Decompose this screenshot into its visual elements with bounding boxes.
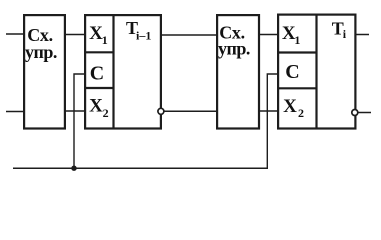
svg-text:X: X — [283, 96, 297, 117]
svg-text:i–1: i–1 — [136, 28, 151, 42]
wire inverse output stub of Ti — [357, 112, 371, 114]
svg-text:X: X — [89, 95, 103, 116]
wire C input of trigger T(i-1) down to clock bus — [74, 74, 85, 168]
svg-text:i: i — [343, 27, 347, 41]
inversion bubble on T(i-1) output — [158, 108, 164, 114]
clock bus wire (bottom) — [13, 167, 268, 169]
pin label C of Ti — [285, 61, 299, 83]
value label T(i-1) — [126, 18, 151, 42]
pin label X2 of T(i-1) — [89, 95, 108, 120]
inversion bubble on Ti output — [352, 110, 358, 116]
pin label X1 of Ti — [282, 23, 300, 47]
svg-text:1: 1 — [294, 33, 300, 47]
control box A2 (Сх. упр.) — [217, 15, 259, 128]
pin label C of T(i-1) — [90, 63, 104, 85]
wire direct output stub of Ti — [355, 34, 369, 36]
trigger Ti box — [277, 15, 355, 129]
wire A2 to X1 input of trigger Ti — [258, 34, 278, 36]
svg-text:1: 1 — [102, 33, 108, 47]
wire A1 to X2 input of trigger T(i-1) — [65, 110, 85, 112]
value label Ti — [332, 19, 347, 41]
wire A1 to X1 input of trigger T(i-1) — [65, 34, 85, 36]
svg-text:C: C — [285, 61, 299, 83]
junction dot on clock bus — [71, 166, 76, 171]
pin label X1 of T(i-1) — [89, 23, 108, 47]
trigger T(i-1) box — [84, 15, 161, 129]
control box A1 (Сх. упр.) — [24, 15, 65, 128]
svg-text:упр.: упр. — [218, 38, 250, 58]
wire input stub 1 to control box A1 — [6, 33, 24, 35]
wire direct output of T(i-1) to control box A2 — [161, 34, 218, 36]
wire input stub 2 to control box A1 — [6, 111, 24, 113]
svg-text:C: C — [90, 63, 104, 85]
svg-text:упр.: упр. — [25, 42, 57, 62]
svg-text:2: 2 — [103, 106, 109, 120]
svg-text:2: 2 — [298, 106, 304, 120]
wire C input of trigger Ti down to clock bus — [267, 74, 278, 168]
wire A2 to X2 input of trigger Ti — [258, 110, 278, 112]
pin label X2 of Ti — [283, 96, 304, 120]
wire inverse output of T(i-1) to control box A2 — [164, 110, 218, 112]
